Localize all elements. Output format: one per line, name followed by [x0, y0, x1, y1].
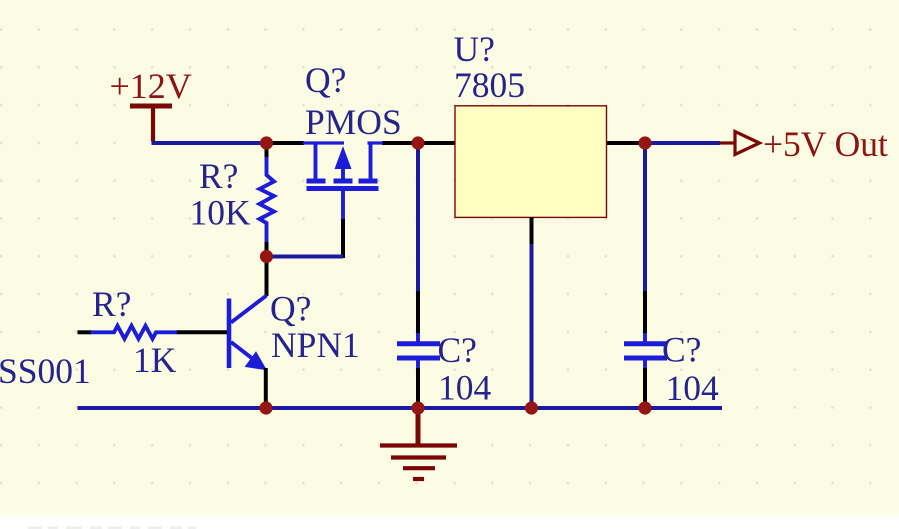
svg-text:SS001: SS001 — [0, 351, 91, 391]
7805 gnd pin (black) — [530, 217, 534, 245]
base pin (black) — [176, 330, 227, 334]
wire +12V to node1 (blue) — [152, 141, 268, 145]
svg-text:R?: R? — [199, 156, 238, 196]
gate lead (black part) — [341, 219, 345, 258]
wire node3 to output port (blue) — [645, 141, 720, 145]
top plate — [624, 341, 667, 346]
junction node1 — [260, 136, 273, 149]
base bar — [227, 299, 232, 369]
ground bar 2 — [391, 455, 446, 459]
junction node8 (C2-rail) — [638, 401, 651, 414]
junction node7 (7805 gnd-rail) — [525, 401, 538, 414]
resistor body — [91, 326, 178, 339]
svg-text:1K: 1K — [133, 340, 177, 380]
power port +12V bar — [130, 104, 172, 109]
junction node4 — [260, 250, 273, 263]
drain top stub — [368, 141, 384, 144]
middle contact bar — [334, 179, 353, 184]
bottom plate — [624, 356, 667, 361]
top lead (blue) — [643, 333, 647, 342]
collector pin (black) — [265, 255, 269, 296]
svg-text:C?: C? — [438, 330, 477, 370]
top pin (black) — [416, 291, 420, 334]
gate lead (blue part) — [341, 191, 345, 220]
junction node5 (emitter-rail) — [259, 401, 272, 414]
junction node6 (C1-rail) — [411, 401, 424, 414]
wire 7805 gnd to rail (blue) — [530, 244, 534, 408]
ground bar 4 — [413, 477, 424, 481]
bottom rail wire (blue) — [78, 406, 723, 410]
drain vertical — [369, 143, 373, 179]
bulk arrow head — [335, 148, 351, 169]
bottom pin (black) — [265, 242, 269, 257]
top lead (blue) — [416, 333, 420, 342]
svg-text:104: 104 — [438, 368, 492, 408]
output port triangle — [735, 132, 760, 155]
wire PMOS drain to 7805 input (black) — [382, 141, 455, 145]
gate plate — [307, 186, 379, 191]
source top stub — [303, 141, 344, 144]
bottom lead (blue) — [643, 360, 647, 369]
bottom pin (black) — [643, 368, 647, 408]
svg-text:Q?: Q? — [305, 60, 346, 100]
transistor Q? PMOS — [303, 143, 383, 220]
faint cut-off marks at bottom edge — [28, 527, 196, 529]
ground stem — [416, 408, 421, 446]
wire stub to port triangle (dark red) — [719, 141, 735, 144]
collector diagonal — [231, 296, 267, 323]
wire 7805 output to node3 (black) — [606, 141, 647, 145]
top pin (black) — [643, 291, 647, 334]
wire node1 to PMOS source (black) — [265, 141, 304, 145]
regulator U? 7805 box — [455, 106, 607, 218]
source contact bar — [307, 179, 326, 184]
junction node3 — [638, 136, 651, 149]
wire node2 down (blue) — [416, 143, 420, 292]
svg-text:U?: U? — [454, 29, 495, 69]
top pin (black) — [265, 143, 269, 159]
svg-text:104: 104 — [666, 368, 720, 408]
source vertical — [314, 143, 318, 179]
wire node3 down (blue) — [643, 143, 647, 292]
bottom lead (blue) — [416, 360, 420, 369]
bulk arrow shaft — [341, 162, 345, 179]
left wire (black) — [78, 330, 93, 334]
wire gate to node4 (blue) — [266, 255, 343, 259]
svg-text:R?: R? — [92, 284, 131, 324]
svg-text:C?: C? — [662, 330, 701, 370]
ground symbol — [380, 408, 457, 479]
svg-text:NPN1: NPN1 — [271, 325, 360, 365]
svg-text:PMOS: PMOS — [305, 102, 402, 142]
emitter arrowhead — [245, 351, 267, 370]
drain contact bar — [359, 179, 378, 184]
junction node2 — [411, 136, 424, 149]
ground bar 1 — [380, 443, 457, 447]
svg-text:+12V: +12V — [110, 66, 192, 106]
power port +12V stem — [151, 106, 155, 142]
svg-text:Q?: Q? — [270, 289, 311, 329]
svg-text:10K: 10K — [190, 193, 252, 233]
ground bar 3 — [403, 466, 435, 470]
svg-text:7805: 7805 — [454, 65, 525, 105]
bottom pin (black) — [416, 368, 420, 408]
resistor body — [260, 157, 275, 244]
svg-text:+5V Out: +5V Out — [763, 124, 888, 164]
emitter pin (black) — [264, 368, 268, 408]
emitter diagonal — [231, 342, 260, 365]
bottom plate — [397, 356, 440, 361]
top plate — [397, 341, 440, 346]
